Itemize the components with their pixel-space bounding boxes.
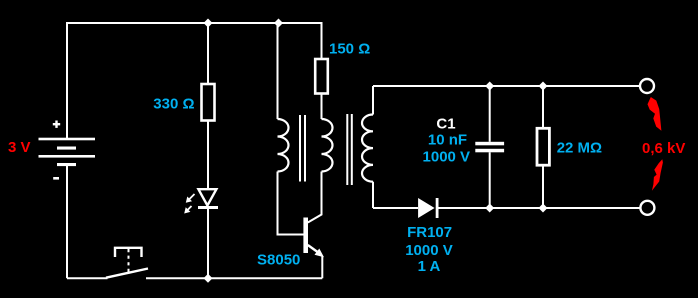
svg-text:3 V: 3 V [8, 139, 31, 156]
svg-text:10 nF: 10 nF [428, 132, 467, 149]
svg-text:22 MΩ: 22 MΩ [557, 140, 602, 157]
svg-text:FR107: FR107 [407, 224, 452, 241]
svg-text:330 Ω: 330 Ω [153, 96, 194, 113]
svg-text:0,6 kV: 0,6 kV [642, 140, 685, 157]
svg-text:1000 V: 1000 V [423, 149, 471, 166]
svg-text:1000 V: 1000 V [405, 242, 453, 259]
svg-text:C1: C1 [436, 116, 455, 133]
svg-text:150 Ω: 150 Ω [329, 41, 370, 58]
svg-text:1 A: 1 A [418, 258, 441, 275]
svg-text:S8050: S8050 [257, 252, 300, 269]
